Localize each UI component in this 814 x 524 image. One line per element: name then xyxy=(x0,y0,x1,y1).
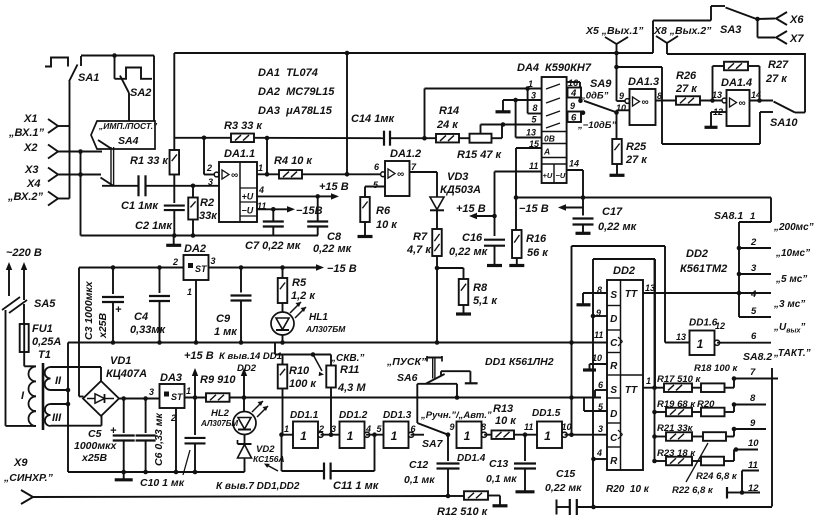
svg-text:R24 6,8 к: R24 6,8 к xyxy=(696,471,738,482)
wire R1 bottom to C2 xyxy=(173,175,175,204)
svg-text:56 к: 56 к xyxy=(527,247,549,259)
wire +15 rail oscillator xyxy=(230,397,602,399)
wire pin9 to DA1.3 xyxy=(617,100,628,102)
svg-text:D: D xyxy=(610,409,617,420)
svg-text:R22 6,8 к: R22 6,8 к xyxy=(672,485,714,496)
junction pin1 drop xyxy=(422,136,427,141)
wire R2 leads xyxy=(192,186,194,198)
switch SA2 arm xyxy=(120,76,129,94)
svg-text:R15 47 к: R15 47 к xyxy=(457,149,503,161)
svg-text:DD2: DD2 xyxy=(686,248,708,260)
wire DA4 pin15 to -15V rail xyxy=(516,147,542,149)
svg-text:12: 12 xyxy=(715,321,725,331)
svg-text:X8 „Вых.2”: X8 „Вых.2” xyxy=(653,25,712,37)
svg-text:∞: ∞ xyxy=(231,170,238,181)
svg-text:R18 100 к: R18 100 к xyxy=(694,363,739,374)
zener diode VD2 xyxy=(244,435,246,445)
junction X3 xyxy=(78,172,83,177)
svg-text:„ВХ.1”: „ВХ.1” xyxy=(8,127,45,139)
svg-text:1000мкх: 1000мкх xyxy=(74,440,117,452)
svg-text:C1 1мк: C1 1мк xyxy=(121,200,159,212)
wire C2 to bottom xyxy=(173,210,175,236)
wire C7/C8 bottom xyxy=(236,234,319,236)
wire bus riser to SA3 xyxy=(652,21,654,54)
svg-text:27 к: 27 к xyxy=(625,154,648,166)
svg-text:DA1.1: DA1.1 xyxy=(224,148,255,160)
wire DD1.3 out to SA7 contact xyxy=(411,434,424,436)
svg-text:„Ручн.”/„Авт.”: „Ручн.”/„Авт.” xyxy=(420,410,492,421)
svg-text:C12: C12 xyxy=(409,459,428,471)
wire SA10 common xyxy=(795,112,805,114)
junction output node xyxy=(265,172,270,177)
wire DD1.5 out xyxy=(565,434,607,436)
svg-text:27 к: 27 к xyxy=(675,83,698,95)
svg-text:SA1: SA1 xyxy=(78,72,99,84)
wire DA3 out xyxy=(185,397,207,399)
wire X1-X4 bus xyxy=(69,82,71,199)
junction R2 top xyxy=(191,184,196,189)
svg-text:3: 3 xyxy=(531,91,536,101)
svg-text:DA1.3: DA1.3 xyxy=(628,76,659,88)
svg-text:11: 11 xyxy=(524,422,533,432)
svg-text:1: 1 xyxy=(464,429,471,443)
svg-text:10: 10 xyxy=(616,103,626,113)
svg-text:4: 4 xyxy=(570,88,577,99)
wire supply common rail xyxy=(68,471,245,473)
svg-text:10: 10 xyxy=(748,438,759,449)
svg-text:5,1 к: 5,1 к xyxy=(473,295,498,307)
wire top bus xyxy=(174,52,653,54)
svg-text:К выв.7 DD1,DD2: К выв.7 DD1,DD2 xyxy=(216,481,300,492)
svg-text:1: 1 xyxy=(697,337,704,351)
svg-text:DD1.5: DD1.5 xyxy=(532,408,561,419)
svg-text:VD1: VD1 xyxy=(110,355,131,367)
transformer core xyxy=(42,363,45,430)
capacitor C13 xyxy=(524,435,526,461)
capacitor C4 xyxy=(159,268,161,294)
svg-text:4: 4 xyxy=(258,185,264,195)
wire R15 tap xyxy=(480,125,482,134)
wire SA2 drop xyxy=(114,56,116,79)
svg-text:DA1.2: DA1.2 xyxy=(390,148,421,160)
svg-text:X2: X2 xyxy=(23,142,37,154)
svg-text:100 к: 100 к xyxy=(289,378,317,390)
svg-text:DA4: DA4 xyxy=(517,62,539,74)
svg-text:SA8.1: SA8.1 xyxy=(714,210,743,222)
wire feedback loop to SA10 lower contact xyxy=(617,66,663,68)
svg-text:SA3: SA3 xyxy=(720,24,741,36)
svg-text:5: 5 xyxy=(751,306,757,317)
svg-text:DA2 MC79L15: DA2 MC79L15 xyxy=(258,86,335,98)
svg-text:1: 1 xyxy=(186,386,191,396)
svg-text:АЛ307БМ: АЛ307БМ xyxy=(305,324,346,334)
wire sync line xyxy=(33,496,448,497)
wire DA3 pin2 down xyxy=(175,408,177,472)
svg-text:DA2: DA2 xyxy=(184,243,206,255)
svg-text:C2 1мк: C2 1мк xyxy=(135,220,173,232)
svg-text:24 к: 24 к xyxy=(436,119,459,131)
svg-text:DA1.4: DA1.4 xyxy=(721,77,752,89)
svg-text:R8: R8 xyxy=(473,282,488,294)
svg-text:4,3 М: 4,3 М xyxy=(337,382,366,394)
svg-text:+: + xyxy=(115,304,122,316)
junction X2 xyxy=(78,149,83,154)
svg-text:T1: T1 xyxy=(38,349,51,361)
wire pin10 ground xyxy=(590,363,608,365)
wire C1 to DA1.1 pin3 xyxy=(146,185,219,187)
svg-text:1: 1 xyxy=(391,429,398,443)
wire top bus drop to R1 xyxy=(173,53,175,150)
svg-text:0,22 мк: 0,22 мк xyxy=(598,221,638,233)
svg-text:X9: X9 xyxy=(13,457,28,469)
switch SA4 label box xyxy=(91,121,155,149)
svg-text:8: 8 xyxy=(750,393,756,404)
wire X2-X3 join xyxy=(80,152,82,236)
resistor network feed xyxy=(654,259,656,461)
wire pin12 to ground xyxy=(711,111,727,113)
svg-text:C9: C9 xyxy=(216,313,231,325)
svg-text:х25В: х25В xyxy=(97,312,109,339)
svg-text:К561ТМ2: К561ТМ2 xyxy=(680,263,727,275)
svg-text:13: 13 xyxy=(645,283,655,293)
svg-text:R: R xyxy=(610,456,618,467)
junction HL2 node xyxy=(242,395,247,400)
svg-text:0,25А: 0,25А xyxy=(32,336,61,348)
wire FF2 out xyxy=(643,387,655,389)
wire to DA4 pin3 xyxy=(503,99,542,101)
svg-text:DD2: DD2 xyxy=(237,363,257,374)
svg-text:C15: C15 xyxy=(556,468,575,480)
wire C14 to R14 xyxy=(390,137,436,139)
svg-text:+U: +U xyxy=(543,171,553,180)
mains leads with arrows xyxy=(8,268,10,296)
svg-text:C: C xyxy=(610,433,618,444)
svg-text:1: 1 xyxy=(187,287,192,297)
switch SA1 arm xyxy=(69,65,78,82)
svg-text:9: 9 xyxy=(570,101,575,111)
svg-text:9: 9 xyxy=(750,418,756,429)
svg-text:0,22 мк: 0,22 мк xyxy=(313,243,353,255)
wire DA1.2 out to VD3 xyxy=(410,171,438,173)
svg-text:1: 1 xyxy=(528,79,533,89)
svg-text:TT: TT xyxy=(625,289,638,300)
wire winding taps to rails xyxy=(67,343,69,473)
svg-text:3: 3 xyxy=(208,177,213,187)
wire pin5 to R6 xyxy=(365,186,385,188)
wire to DA4 pin13 xyxy=(515,100,517,138)
svg-text:SA8.2: SA8.2 xyxy=(743,351,772,363)
svg-text:S: S xyxy=(610,385,617,396)
wire bus drop to R4 line xyxy=(346,53,348,174)
svg-text:III: III xyxy=(52,412,62,424)
switch SA5 xyxy=(2,297,20,310)
wire -15V rail xyxy=(516,197,771,199)
supply arrow +15V xyxy=(318,195,333,197)
svg-text:10: 10 xyxy=(592,353,602,363)
wire right bus xyxy=(667,53,805,55)
svg-text:VD3: VD3 xyxy=(447,171,468,183)
svg-text:„0дБ”: „0дБ” xyxy=(580,91,609,102)
svg-text:X3: X3 xyxy=(24,164,38,176)
switch SA6 right contact xyxy=(441,370,470,372)
svg-text:X1: X1 xyxy=(23,113,37,125)
svg-text:X4: X4 xyxy=(26,178,40,190)
svg-text:A: A xyxy=(543,147,550,157)
svg-text:SA6: SA6 xyxy=(397,372,418,384)
svg-text:0,22 мк: 0,22 мк xyxy=(449,246,489,258)
switch SA4 upper arm xyxy=(98,140,111,149)
svg-text:R5: R5 xyxy=(292,277,307,289)
resistor R12 xyxy=(448,495,464,497)
junction R8 branch xyxy=(435,266,440,271)
svg-text:3: 3 xyxy=(598,424,603,434)
wire DD1.1 out xyxy=(321,434,340,436)
wire loop to DD1.6 xyxy=(571,246,573,435)
switch SA1 fixed contact stub xyxy=(80,56,82,66)
svg-text:R26: R26 xyxy=(676,70,697,82)
wire common mid rail xyxy=(68,342,607,344)
svg-text:1,2 к: 1,2 к xyxy=(291,290,316,302)
wire DA1.3 out xyxy=(656,100,677,102)
resistor R5 xyxy=(282,268,284,279)
svg-text:SA4: SA4 xyxy=(118,135,139,147)
svg-text:R3 33 к: R3 33 к xyxy=(224,120,263,132)
supply arrow -15V xyxy=(273,208,289,210)
wire pin8 ground xyxy=(583,292,607,294)
svg-text:9: 9 xyxy=(450,422,455,432)
capacitor C16 xyxy=(484,239,505,241)
wire DD2 pin13 out to SA8.1 xyxy=(643,292,771,294)
svg-text:„−10дБ”: „−10дБ” xyxy=(577,120,616,131)
DA4 switch glyphs xyxy=(546,84,560,89)
svg-text:S: S xyxy=(610,290,617,301)
resistor R2 xyxy=(188,198,198,220)
svg-text:4: 4 xyxy=(750,289,757,300)
svg-text:+15 В: +15 В xyxy=(456,203,486,215)
svg-text:X7: X7 xyxy=(789,33,804,45)
svg-text:„ТАКТ.”: „ТАКТ.” xyxy=(773,348,811,359)
svg-text:∞: ∞ xyxy=(397,169,404,180)
svg-text:C3 1000мкх: C3 1000мкх xyxy=(83,280,95,340)
svg-text:13: 13 xyxy=(526,128,536,138)
wire pin9 xyxy=(593,315,607,317)
svg-text:10 к: 10 к xyxy=(376,219,398,231)
wire pin4 box to contact xyxy=(579,98,581,101)
LED HL1 xyxy=(271,312,294,335)
flip-flop DD2 body xyxy=(607,280,643,470)
wire pin4 xyxy=(594,458,608,460)
svg-text:1: 1 xyxy=(258,163,263,173)
svg-text:SA7: SA7 xyxy=(422,438,444,450)
svg-text:R11: R11 xyxy=(340,364,359,376)
svg-text:R: R xyxy=(610,361,618,372)
wire bridge minus to C3 rail xyxy=(78,268,80,397)
svg-text:TT: TT xyxy=(625,385,638,396)
svg-text:К590КН7: К590КН7 xyxy=(545,62,592,74)
svg-text:33к: 33к xyxy=(199,210,218,222)
svg-text:КС156А: КС156А xyxy=(253,454,285,464)
svg-text:R14: R14 xyxy=(439,105,459,117)
svg-text:„ВХ.2”: „ВХ.2” xyxy=(7,191,44,203)
svg-text:„СКВ.”: „СКВ.” xyxy=(330,353,364,364)
svg-text:11: 11 xyxy=(594,330,603,340)
svg-text:HL2: HL2 xyxy=(211,408,230,419)
svg-text:13: 13 xyxy=(712,90,722,100)
svg-text:2: 2 xyxy=(206,163,212,173)
svg-text:C4: C4 xyxy=(134,311,148,323)
svg-text:0,22 мк: 0,22 мк xyxy=(545,482,582,494)
junction R2 bottom xyxy=(191,233,196,238)
switch SA4 coupling xyxy=(110,147,112,186)
svg-text:КД503А: КД503А xyxy=(440,184,481,196)
resistor R22 xyxy=(703,432,726,441)
wire R3 to output xyxy=(266,138,268,174)
svg-text:0,1 мк: 0,1 мк xyxy=(404,474,435,486)
svg-text:R1 33 к: R1 33 к xyxy=(130,155,169,167)
svg-text:10 к: 10 к xyxy=(495,415,517,427)
capacitor C9 xyxy=(240,268,242,293)
svg-text:C11 1 мк: C11 1 мк xyxy=(333,480,380,492)
ground under C2 xyxy=(173,236,175,245)
svg-text:R25: R25 xyxy=(626,141,647,153)
wire bottom common xyxy=(81,235,319,237)
capacitor C11 loop xyxy=(281,435,283,471)
svg-text:ST: ST xyxy=(195,264,208,274)
svg-text:10: 10 xyxy=(562,422,572,432)
wire X5 line down to pin9 xyxy=(616,44,618,101)
wire R15 right up xyxy=(492,137,503,139)
svg-text:6: 6 xyxy=(751,331,757,342)
svg-text:C5: C5 xyxy=(88,428,102,440)
svg-text:−15 В: −15 В xyxy=(327,263,357,275)
svg-text:КЦ407А: КЦ407А xyxy=(106,368,147,380)
capacitor C17 xyxy=(582,198,584,216)
junction DA1.4 in xyxy=(710,98,715,103)
svg-text:DD1 К561ЛН2: DD1 К561ЛН2 xyxy=(485,356,554,368)
svg-text:0,33мк: 0,33мк xyxy=(130,324,167,336)
svg-text:1: 1 xyxy=(347,429,354,443)
svg-text:R12 510 к: R12 510 к xyxy=(437,506,489,518)
svg-text:х25В: х25В xyxy=(81,452,108,464)
wire DA1.4 out xyxy=(750,100,774,102)
svg-text:„10мс”: „10мс” xyxy=(775,248,810,259)
svg-text:FU1: FU1 xyxy=(32,323,53,335)
svg-text:C6 0,33 мк: C6 0,33 мк xyxy=(153,413,165,466)
capacitor C6 xyxy=(145,399,147,434)
svg-text:R10: R10 xyxy=(289,365,310,377)
wire DA2 out -15V xyxy=(209,267,317,269)
wire +U pin4 to +15V xyxy=(257,195,318,197)
svg-text:C13: C13 xyxy=(489,458,508,470)
svg-text:−15В: −15В xyxy=(296,205,323,217)
svg-text:0,1 мк: 0,1 мк xyxy=(486,473,517,485)
svg-text:11: 11 xyxy=(529,161,538,171)
svg-text:DD1.1: DD1.1 xyxy=(290,410,319,421)
junction pin13 drop xyxy=(513,98,518,103)
svg-text:2: 2 xyxy=(172,257,178,267)
switch SA9 arm xyxy=(584,101,617,113)
wire DA4 pin11 to +15 xyxy=(495,171,542,173)
wire DD1.6 out to SA8.1 contact6 xyxy=(717,342,771,344)
wire SA1/SA2 top xyxy=(81,55,154,57)
svg-text:8: 8 xyxy=(481,422,486,432)
wire node to pin2 xyxy=(203,138,205,175)
arrow to pin7 DD1 DD2 xyxy=(266,465,278,472)
junction R15 node xyxy=(501,122,506,127)
svg-text:−U: −U xyxy=(556,171,566,180)
svg-text:−U: −U xyxy=(242,206,254,216)
svg-text:16: 16 xyxy=(568,78,579,88)
svg-text:R20 10 к: R20 10 к xyxy=(606,484,650,495)
connector X6 xyxy=(758,18,776,21)
wire DA1.1 output xyxy=(257,173,279,175)
svg-text:АЛ307БМ: АЛ307БМ xyxy=(200,419,238,428)
wire SA9 common to pin10/R25 xyxy=(616,110,618,139)
wire DD1.4 out to R13 xyxy=(484,434,491,436)
svg-text:C16: C16 xyxy=(462,232,483,244)
wire to DA4 pin1 xyxy=(424,89,426,139)
svg-text:HL1: HL1 xyxy=(309,312,328,323)
junction DA1.1 input node xyxy=(202,136,207,141)
svg-text:C: C xyxy=(610,338,618,349)
switch SA2 pulse contact xyxy=(115,68,153,79)
svg-text:R27: R27 xyxy=(768,59,789,71)
svg-text:3: 3 xyxy=(211,256,216,266)
svg-text:C10 1 мк: C10 1 мк xyxy=(140,477,185,489)
resistor R8 xyxy=(437,267,464,269)
svg-text:∞: ∞ xyxy=(739,98,746,109)
wire SA5 left down xyxy=(5,310,7,426)
supply arrow -15V left xyxy=(561,207,583,209)
svg-text:0В: 0В xyxy=(544,134,555,144)
svg-text:R6: R6 xyxy=(376,205,391,217)
capacitor C1 xyxy=(137,175,139,196)
svg-text:SA10: SA10 xyxy=(770,117,798,129)
switch SA6 left contact xyxy=(417,383,457,385)
svg-text:∞: ∞ xyxy=(642,97,649,108)
wire -U pin11 to -15V xyxy=(257,208,273,210)
svg-text:SA5: SA5 xyxy=(34,298,56,310)
svg-text:R9 910: R9 910 xyxy=(200,374,236,386)
svg-text:R2: R2 xyxy=(200,197,214,209)
capacitor C10 xyxy=(194,398,196,436)
svg-text:„200мс”: „200мс” xyxy=(773,222,814,233)
svg-text:11: 11 xyxy=(748,460,758,471)
resistor R16 xyxy=(515,198,517,231)
capacitor C12 xyxy=(447,435,449,461)
capacitor C7 xyxy=(272,209,274,221)
supply arrow +15V up xyxy=(194,374,196,398)
svg-text:+U: +U xyxy=(242,192,254,202)
svg-text:1: 1 xyxy=(750,211,755,222)
negative supply top rail xyxy=(79,267,184,269)
svg-text:C7 0,22 мк: C7 0,22 мк xyxy=(245,240,302,252)
svg-text:13: 13 xyxy=(676,332,686,342)
junction xyxy=(112,53,117,58)
junction pin8 drop xyxy=(525,86,530,91)
svg-text:7: 7 xyxy=(750,367,756,378)
svg-text:~220 В: ~220 В xyxy=(6,247,42,259)
svg-text:1: 1 xyxy=(544,429,551,443)
wire pin5 to rail xyxy=(584,410,607,412)
junction R3 right xyxy=(265,136,270,141)
wire bottom loop xyxy=(593,506,772,508)
resistor R27 feedback xyxy=(712,66,714,101)
svg-text:DA3: DA3 xyxy=(160,372,182,384)
svg-text:R7: R7 xyxy=(413,231,428,243)
svg-text:X6: X6 xyxy=(789,14,804,26)
svg-text:SA9: SA9 xyxy=(590,78,612,90)
